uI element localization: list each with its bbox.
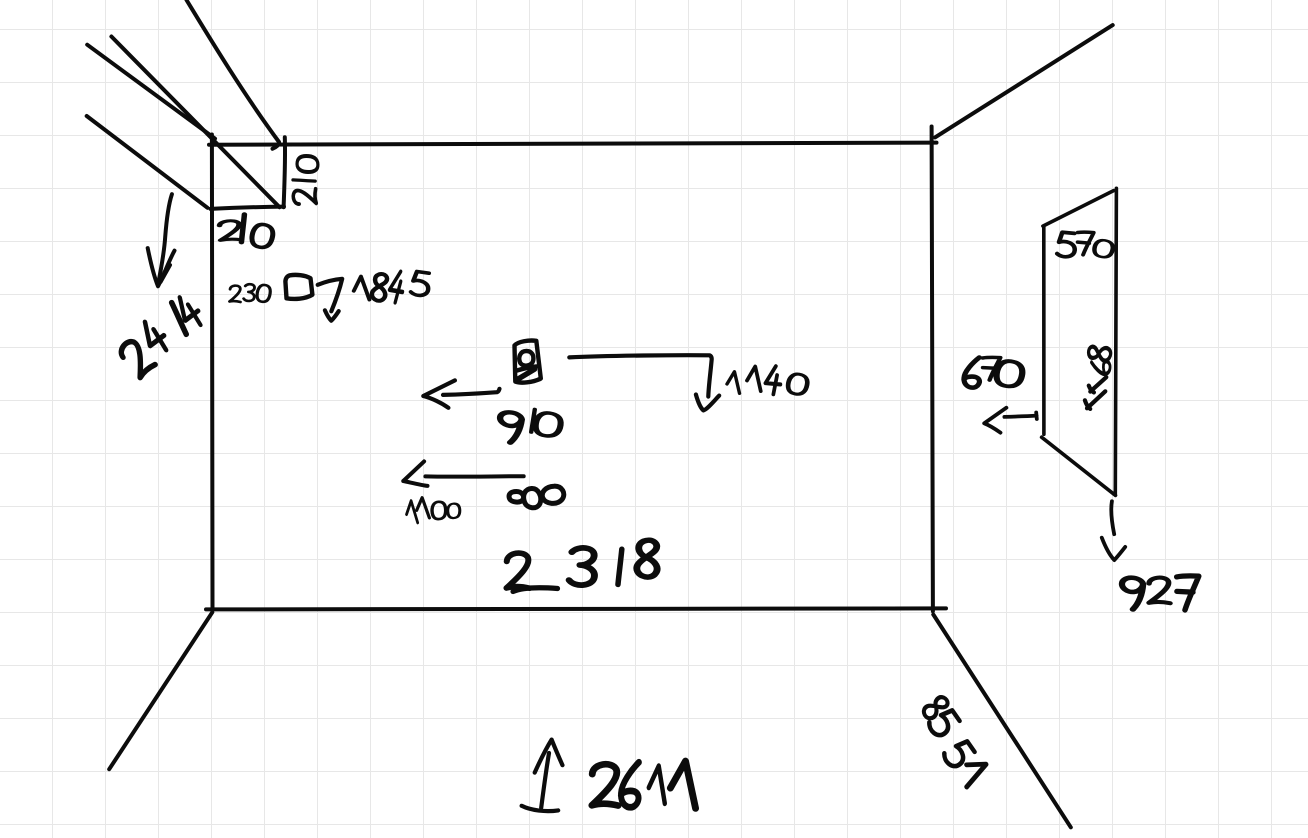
arrow 910 shaft (443, 389, 500, 395)
label 1558 rotated (921, 694, 991, 787)
arrowhead 1100 left (403, 461, 427, 486)
arrow 670 shaft (1004, 413, 1036, 420)
label 927 (1120, 575, 1199, 611)
arrowhead 927 down (1102, 538, 1125, 560)
arrow 2611 underline (522, 806, 559, 811)
arrow 927 stem (1111, 501, 1114, 534)
notch vertical edge (284, 137, 285, 207)
label 2611 (591, 760, 698, 808)
label 1168 rotated: digits 68 (1088, 345, 1112, 374)
arrow 2414 curve (158, 194, 172, 284)
arrowhead dim mark (325, 310, 339, 320)
dim mark hook (318, 279, 343, 312)
arrow 2611 shaft (541, 753, 549, 808)
label 2318 (505, 540, 658, 590)
window top edge (1043, 191, 1114, 227)
arrowhead 2611 up (535, 740, 563, 773)
ceiling diagonal lower (87, 116, 208, 208)
wall bottom edge (206, 608, 946, 609)
rings 000 (509, 486, 564, 508)
label 230 (229, 284, 271, 303)
label 1100 (406, 497, 461, 523)
corner line bottom-right (933, 615, 1071, 828)
square symbol (285, 275, 312, 299)
ceiling curve (187, 0, 280, 149)
ceiling diagonal upper (87, 45, 215, 139)
arrowhead 670 left (984, 408, 1006, 433)
label 570 (1057, 231, 1114, 258)
ceiling diagonal long (111, 37, 279, 208)
label 910 (497, 409, 562, 443)
label 2414 rotated (117, 293, 205, 378)
wall right edge (932, 127, 933, 612)
window right edge (1115, 188, 1116, 495)
label 1140 (727, 365, 809, 395)
socket box (515, 341, 541, 383)
dim line 1140 elbow (569, 355, 711, 396)
label 1845 (353, 270, 430, 303)
notch bottom edge (211, 207, 285, 209)
label 670 (964, 357, 1024, 388)
arrowhead 2414 down (148, 248, 175, 286)
label 2318 swash (513, 588, 558, 592)
label 210 rotated beside notch (293, 156, 318, 204)
wall left edge (210, 135, 215, 610)
label 1168 rotated: digits 11 (1085, 377, 1106, 409)
arrowhead 1140 down (696, 395, 719, 411)
window left edge (1042, 226, 1046, 434)
label 210 under notch (220, 214, 275, 249)
corner line top-right (935, 25, 1113, 137)
window bottom edge (1042, 437, 1116, 495)
arrowhead 910 left (423, 380, 455, 407)
wall top edge (209, 143, 937, 145)
corner line bottom-left (109, 612, 212, 769)
arrow 1100 shaft (425, 474, 523, 479)
